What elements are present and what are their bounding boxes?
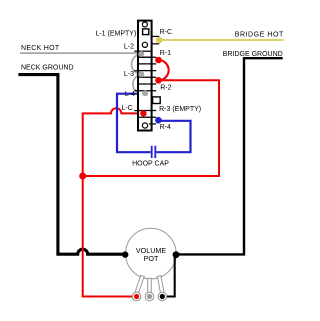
svg-text:R-1: R-1 [160,50,171,57]
svg-text:R-4: R-4 [160,124,171,131]
svg-text:POT: POT [144,254,159,263]
svg-text:NECK GROUND: NECK GROUND [21,64,74,71]
svg-text:R-3 (EMPTY): R-3 (EMPTY) [159,106,201,113]
svg-text:R-C: R-C [160,29,172,36]
svg-text:BRIDGE HOT: BRIDGE HOT [235,32,284,39]
svg-text:R-2: R-2 [160,85,171,92]
svg-text:BRIDGE GROUND: BRIDGE GROUND [223,51,283,58]
svg-text:NECK HOT: NECK HOT [21,45,60,52]
svg-text:L-C: L-C [122,105,133,112]
svg-text:HOOP CAP: HOOP CAP [132,161,169,168]
svg-text:L-2: L-2 [124,44,134,51]
svg-text:L-1 (EMPTY): L-1 (EMPTY) [95,31,136,38]
svg-text:L-4: L-4 [125,91,135,98]
svg-text:L-3: L-3 [124,71,134,78]
